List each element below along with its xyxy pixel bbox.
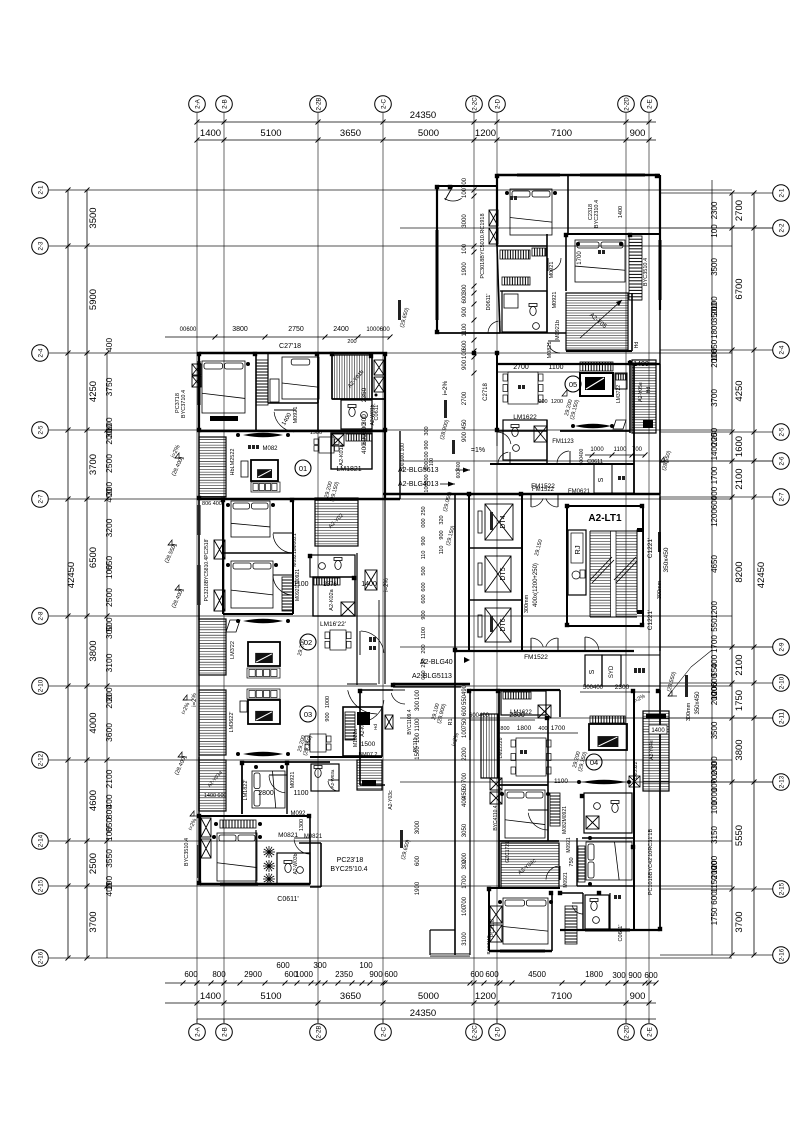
comb unit04 bottom [565,906,577,944]
svg-text:1400: 1400 [710,442,719,460]
svg-text:A2-LT1: A2-LT1 [588,513,622,524]
svg-text:1300: 1300 [299,819,305,831]
svg-text:LM3622': LM3622' [229,712,235,733]
svg-text:320: 320 [439,515,445,524]
svg-text:C1221': C1221' [647,610,654,630]
dim row unit04 [499,732,578,734]
svg-text:500400: 500400 [583,685,604,691]
structural column blobs [197,174,662,931]
left flags and slope marks [175,453,179,458]
dim row top-right 2700 1100 [497,371,580,373]
svg-text:5550: 5550 [734,825,745,846]
svg-text:2300: 2300 [615,684,630,691]
svg-text:LM3722: LM3722 [616,385,622,403]
axis circle 2-12 left [32,752,49,769]
bath bottom-left [277,853,310,884]
svg-text:1600: 1600 [734,436,745,457]
svg-text:2800: 2800 [258,790,274,797]
wall x547 top-right [546,234,548,333]
wall y291 top-right [500,290,547,292]
axis circle 2-A top [189,96,206,113]
flag 28.550 right mid [668,691,672,696]
svg-text:05: 05 [569,380,577,389]
svg-text:750: 750 [462,718,468,729]
room right of SYD [621,655,660,686]
svg-text:806 400: 806 400 [202,501,222,507]
svg-text:=1%: =1% [471,447,485,454]
svg-text:1000: 1000 [590,447,604,453]
wall mid horizontal y497 left wing [199,498,400,501]
svg-text:450: 450 [462,419,468,430]
axis circle 2-A bottom [189,1024,206,1041]
wall x385 vertical corridor [384,353,386,499]
axis circle 2-3 left [32,238,49,255]
svg-text:PC3018BYC5010.RC1918: PC3018BYC5010.RC1918 [480,213,486,278]
svg-text:1700: 1700 [551,725,566,732]
svg-text:300: 300 [612,971,626,980]
svg-text:1100: 1100 [293,581,308,588]
svg-text:100: 100 [104,565,114,579]
svg-text:3200: 3200 [104,518,114,537]
svg-text:600: 600 [462,293,468,304]
wall corridor y494 center [383,493,660,495]
svg-text:900: 900 [462,359,468,370]
axis circle 2-10 right [773,675,790,692]
balcony left unit01 hatch [199,437,226,497]
window bottom-left unit bottom [220,883,258,885]
elevator DT6 [485,608,511,642]
entry arcs unit03 left [361,631,384,653]
svg-text:300: 300 [462,284,468,295]
door arcs core corridor double bottom [532,638,544,647]
door arcs unit05 [497,432,511,444]
unit01 bedroom outer walls [198,353,200,431]
svg-text:900: 900 [462,431,468,442]
svg-text:03: 03 [304,710,312,719]
axis circle 2-2B bottom [310,1024,327,1041]
svg-text:42450: 42450 [756,562,767,588]
svg-text:3700: 3700 [710,389,719,407]
svg-text:2900: 2900 [244,970,262,979]
svg-text:2-D: 2-D [495,98,502,109]
svg-text:2-7: 2-7 [779,492,786,502]
svg-text:M0921: M0921 [293,407,299,424]
svg-text:2-B: 2-B [222,1027,229,1037]
svg-text:600: 600 [485,970,499,979]
svg-text:600: 600 [462,705,468,716]
bed unit03 mid [252,771,285,808]
svg-text:600: 600 [184,970,198,979]
svg-text:600: 600 [710,891,719,905]
wall mid horizontal y430 left wing [199,430,385,433]
door arcs core corridor double top [532,498,544,507]
svg-text:2-6: 2-6 [779,456,786,466]
svg-text:LM1821: LM1821 [336,466,361,473]
comb wardrobe unit04 [550,793,560,826]
svg-text:1980: 1980 [310,430,322,436]
svg-text:A2-BLG4013: A2-BLG4013 [398,481,439,488]
svg-text:A2-W03b: A2-W03b [293,853,299,874]
svg-text:800: 800 [212,970,226,979]
svg-text:4000: 4000 [88,712,99,733]
svg-text:2-A: 2-A [195,1026,202,1037]
bed unit04 mid [505,790,545,838]
svg-text:7100: 7100 [551,128,572,139]
svg-text:M0921: M0921 [552,292,558,309]
svg-text:700: 700 [462,177,468,188]
lens sideboard unit02 [243,619,283,624]
wall x385 lower corridor [384,499,386,684]
balcony bottom wall A2-Y05 [566,350,632,352]
svg-text:100: 100 [462,187,468,198]
svg-text:A2-Y04e: A2-Y04e [649,740,655,760]
svg-text:900: 900 [369,970,383,979]
stair boundary lines [590,530,637,532]
svg-text:2200: 2200 [462,747,468,761]
axis circle 2-16 left [32,950,49,967]
svg-text:2-14: 2-14 [38,834,45,847]
axis circle 2-2D top [618,96,635,113]
trash small marks unit04 [614,895,621,899]
svg-text:300: 300 [424,426,430,435]
svg-text:BYC1109.4: BYC1109.4 [407,709,413,734]
bath unit05 [503,420,547,460]
bath unit04 right [584,793,632,833]
svg-text:2-E: 2-E [647,1027,654,1037]
svg-text:1700: 1700 [577,251,583,265]
svg-text:2-2B: 2-2B [316,1025,323,1038]
unit circle 03 [300,706,316,722]
door arc stair bottom [585,637,599,650]
svg-text:FM1522: FM1522 [524,654,548,661]
svg-text:5100: 5100 [260,991,281,1002]
svg-text:M0921: M0921 [563,872,569,888]
svg-text:3650: 3650 [340,991,361,1002]
svg-text:1100: 1100 [554,778,568,785]
svg-text:2750: 2750 [288,326,304,333]
svg-text:M0821: M0821 [304,834,323,840]
kitchen unit04 [501,691,546,715]
svg-text:A2-Y05e: A2-Y05e [638,382,644,402]
svg-text:200: 200 [710,354,719,368]
window strip right bedroom2 [629,236,642,300]
svg-text:2-E: 2-E [647,99,654,109]
svg-text:1100: 1100 [293,790,308,797]
hatch right strip near DT6 [481,714,498,778]
svg-text:01: 01 [299,464,307,473]
axis circle 2-15 left [32,878,49,895]
svg-text:1200: 1200 [475,128,496,139]
svg-text:04: 04 [590,758,598,767]
svg-text:DT5: DT5 [500,567,507,580]
diamond deco unit05 [613,420,626,429]
svg-text:2-7: 2-7 [38,494,45,504]
svg-text:2-2C: 2-2C [472,1025,479,1039]
kitchen unit02 A2-K02a [313,577,355,616]
tv unit02 [248,642,280,666]
svg-text:4600: 4600 [88,790,99,811]
svg-text:350x450: 350x450 [695,691,701,715]
svg-text:7100: 7100 [551,991,572,1002]
svg-text:350: 350 [710,308,719,322]
svg-text:3000: 3000 [415,820,421,834]
axis circle 2-2C bottom [466,1024,483,1041]
axis circle 2-4 left [32,345,49,362]
chain ticks x474 [472,188,477,193]
svg-text:2350: 2350 [361,387,368,402]
wall x400 vertical [399,431,401,499]
svg-text:300.900.100: 300.900.100 [400,443,406,471]
xboxes left bottom-left unit [201,818,211,837]
door arc unit03 [269,776,285,793]
svg-text:900: 900 [630,128,646,139]
svg-text:LM1622: LM1622 [510,710,532,716]
svg-text:200: 200 [421,644,427,653]
svg-text:300: 300 [104,625,114,639]
trees bottom-left [263,846,275,858]
wardrobe xboxes top-right [489,210,498,226]
svg-text:2500: 2500 [88,853,99,874]
window left edge unit02 beds [198,505,200,535]
wardrobe comb unit02 [282,577,293,611]
svg-text:3500: 3500 [88,207,99,228]
svg-text:M1822a: M1822a [353,729,359,747]
sofa unit01 [251,482,280,492]
svg-text:600: 600 [361,423,368,434]
lens unit03 [243,752,283,757]
dining unit02 [325,630,351,650]
svg-text:2400: 2400 [333,326,349,333]
top dimension chain line [197,139,656,141]
svg-text:000: 000 [421,518,427,527]
sofa unit02 [247,668,280,678]
svg-text:Hd: Hd [373,724,378,730]
axis circle 2-15 right [773,881,790,898]
svg-text:M0921: M0921 [549,262,555,279]
window left edge bottom unit [198,845,200,878]
svg-text:24350: 24350 [410,110,436,121]
axis circle 2-1 right [773,185,790,202]
svg-text:1400: 1400 [200,128,221,139]
wall bottom wing left [359,690,361,785]
bath unit04 bottom right [585,895,609,929]
svg-text:24350: 24350 [410,1008,436,1019]
svg-text:1900: 1900 [462,262,468,276]
svg-text:3100: 3100 [104,653,114,672]
svg-text:A2-K03a: A2-K03a [360,717,366,737]
axis circle 2-7 left [32,491,49,508]
diamond X unit04 right [629,776,640,787]
svg-text:900: 900 [325,712,331,721]
svg-text:5100: 5100 [260,128,281,139]
svg-text:2-C: 2-C [381,98,388,109]
svg-text:1200: 1200 [710,601,719,619]
axis circle 2-2C top [466,96,483,113]
svg-text:2-2C: 2-2C [472,97,479,111]
svg-text:200: 200 [347,339,356,345]
dim row below core [470,719,535,721]
svg-text:i=2%: i=2% [442,380,449,395]
svg-text:800: 800 [500,726,509,732]
svg-text:1700: 1700 [710,466,719,484]
window bottom unit04 [500,950,545,952]
unit05 walls [496,353,498,431]
svg-text:2-C: 2-C [381,1026,388,1037]
axis circle 2-2 right [773,220,790,237]
xboxes left wall unit01 [192,364,201,375]
shelf column left of bath [532,248,546,256]
tv unit01 [251,460,278,481]
door arc M0821 bottom top-right [548,343,560,353]
S room below core [585,655,602,686]
svg-text:3100: 3100 [462,932,468,946]
svg-text:1400: 1400 [200,991,221,1002]
svg-text:600: 600 [710,495,719,509]
svg-text:3000: 3000 [462,214,468,228]
svg-text:2700: 2700 [734,200,745,221]
svg-text:2-5: 2-5 [38,425,45,435]
svg-text:1200: 1200 [475,991,496,1002]
svg-text:100: 100 [710,224,719,238]
svg-text:SYD: SYD [609,665,615,678]
svg-text:2-9: 2-9 [779,642,786,652]
living unit05 top comb [580,362,613,371]
svg-text:1400: 1400 [651,728,665,734]
svg-text:600: 600 [424,474,430,483]
svg-text:FM1123: FM1123 [552,439,574,445]
door arcs unit04 [528,813,548,830]
elevator DT4 [485,504,513,540]
stair treads horizontal [590,533,637,614]
svg-text:3550: 3550 [104,849,114,868]
elevator shaft outer wall [469,494,522,651]
svg-text:600: 600 [217,793,226,799]
svg-text:300: 300 [462,859,468,870]
window bottom wing end [455,954,470,956]
dining unit03 [305,734,331,752]
svg-text:490: 490 [462,684,468,695]
door arc bottom-left [294,839,309,854]
svg-text:LM3'22: LM3'22 [230,641,236,659]
closet shelves top-right [500,250,530,259]
balcony hatch left unit03 [199,690,226,755]
svg-text:900: 900 [538,399,547,405]
bed unit04 right bedroom [586,842,632,880]
svg-text:100: 100 [710,800,719,814]
svg-text:600: 600 [421,582,427,591]
axis circle 2-11 right [773,710,790,727]
svg-text:1800: 1800 [585,970,603,979]
svg-text:Hd: Hd [634,342,640,349]
svg-text:R1: R1 [448,718,454,725]
svg-text:1500: 1500 [361,741,376,748]
axis circle 2-E bottom [641,1024,658,1041]
arrow balcony A2-Y05 [580,300,622,338]
svg-text:DT4: DT4 [500,515,507,528]
door arc bottom wing [391,693,405,704]
svg-text:900: 900 [421,610,427,619]
svg-text:4650: 4650 [710,555,719,573]
svg-text:700: 700 [632,447,643,453]
door arc bath top-right [488,321,498,333]
svg-text:100: 100 [415,732,421,743]
svg-text:A2-K01a: A2-K01a [339,443,345,465]
svg-text:GZC1721: GZC1721 [505,841,511,863]
svg-text:1000600: 1000600 [366,327,390,333]
svg-text:3650: 3650 [340,128,361,139]
window left edge top-right [436,230,438,320]
window top-right unit right edge [659,240,661,300]
svg-text:1150: 1150 [710,875,719,893]
svg-text:200: 200 [104,430,114,444]
svg-text:PC1018BYC42'10RC31'1B: PC1018BYC42'10RC31'1B [648,829,654,896]
shelf row bottom-left [220,820,256,828]
axis circle 2-10 left [32,678,49,695]
svg-text:550: 550 [710,618,719,632]
svg-text:250: 250 [421,506,427,515]
svg-text:900: 900 [462,306,468,317]
svg-text:5900: 5900 [88,289,99,310]
svg-text:2-11: 2-11 [779,711,786,723]
tv unit03 [248,700,280,724]
blocktext kechting [248,445,259,449]
unit04 outer walls [470,689,560,691]
svg-text:BYC3510.4: BYC3510.4 [643,258,649,286]
bed 2 unit01 [282,357,319,399]
svg-text:900: 900 [424,440,430,449]
svg-text:Hd: Hd [646,387,652,394]
plan region [164,174,712,956]
svg-text:C27'18: C27'18 [279,343,301,350]
svg-text:200: 200 [104,694,114,708]
corridor walls bottom wing [454,651,456,955]
svg-text:A2-Y03c: A2-Y03c [388,790,394,810]
svg-text:800: 800 [104,805,114,819]
wardrobe comb unit01 [256,360,268,405]
svg-text:600: 600 [644,971,658,980]
balcony hatch unit05 right [632,360,656,433]
svg-text:400: 400 [538,726,547,732]
balcony hatch left lower unit03 [199,760,226,811]
svg-text:1400: 1400 [361,581,377,588]
dining table unit01 [314,437,339,453]
svg-text:2-15: 2-15 [38,879,45,892]
door arc unit01 bedroom [274,412,294,432]
svg-text:M0921: M0921 [290,772,296,789]
axis circle 2-16 right [773,947,790,964]
svg-text:4250: 4250 [88,381,99,402]
dim row 500400 2300 [580,691,650,693]
bath unit01 [341,400,372,429]
svg-text:M0921: M0921 [566,837,572,853]
svg-text:BYC3710.4: BYC3710.4 [181,390,187,418]
axis horizontal grid lines [49,190,773,958]
xbox wardrobe left unit02 [214,540,225,559]
xbox corridor x365 [365,570,377,590]
svg-text:1200: 1200 [710,509,719,527]
svg-text:400: 400 [462,796,468,807]
svg-text:6700: 6700 [734,278,745,299]
svg-text:2376: 2376 [323,582,337,588]
stair window right [637,530,643,612]
lens sideboard unit01 [243,433,283,438]
xboxes right of balcony [374,360,384,375]
door arc top-right entry [444,198,461,201]
bed second unit02 [231,561,273,608]
svg-text:1100: 1100 [614,447,628,453]
svg-text:2-8: 2-8 [38,611,45,621]
svg-text:2-2D: 2-2D [624,1025,631,1039]
